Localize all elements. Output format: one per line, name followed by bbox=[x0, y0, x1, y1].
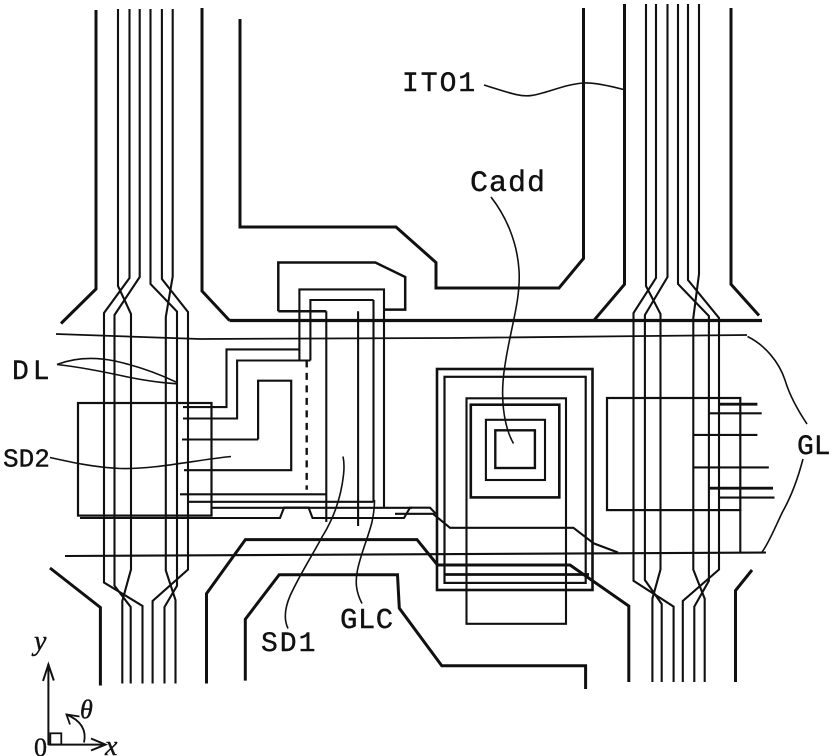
wire: DL leftmost thick line bbox=[61, 10, 96, 324]
svg-text:x: x bbox=[104, 731, 118, 756]
wire: gate pad right edge extension bbox=[739, 510, 741, 553]
wire: right lower thick line bbox=[736, 570, 753, 682]
capacitor Cadd contact square bbox=[495, 430, 535, 468]
wire: DL line 5 bbox=[151, 9, 178, 684]
electrode: right gate pad rectangle bbox=[607, 398, 740, 510]
svg-text:SD1: SD1 bbox=[261, 629, 317, 660]
leader line: DL lower curve bbox=[57, 365, 177, 384]
wire: SD2 staircase 2 bbox=[183, 361, 310, 419]
electrode: hat middle rectangle bbox=[299, 289, 384, 360]
wire: SD2 staircase 1 bbox=[183, 349, 299, 407]
electrode: hat inner rect right vertical SD electrode bbox=[372, 300, 374, 502]
leader line: Cadd bbox=[491, 197, 519, 444]
electrode: hat middle rect right vertical bbox=[383, 310, 385, 508]
boundary: bumpy layer edge to capacitor bbox=[80, 508, 436, 518]
wire: right bundle outer thick line bbox=[731, 8, 759, 316]
capacitor Cadd fourth rectangle bbox=[471, 405, 560, 498]
wire: DL line 3 bbox=[104, 9, 143, 684]
wire: right data line bundle bbox=[594, 4, 759, 682]
boundary: dashed channel line bbox=[306, 360, 308, 489]
svg-text:y: y bbox=[31, 626, 47, 657]
svg-text:SD2: SD2 bbox=[3, 445, 50, 475]
wire: layer edge into capacitor region bbox=[395, 514, 618, 553]
wire: gate line GL upper thick edge bbox=[230, 319, 763, 322]
axis icon bbox=[31, 626, 118, 756]
leader line: DL upper curve bbox=[57, 358, 177, 382]
capacitor Cadd second rectangle bbox=[445, 377, 586, 583]
wire: right bundle line 3 bbox=[634, 4, 674, 682]
wire: right bundle line 6 bbox=[683, 4, 719, 682]
electrode: SD1 source strip right bbox=[357, 311, 359, 526]
leader line: SD1 bbox=[285, 457, 344, 629]
boundary: gate metal mesa C thick bbox=[245, 575, 585, 689]
axis x arrow bbox=[48, 744, 103, 746]
svg-text:0: 0 bbox=[34, 733, 47, 756]
wire: source connect 2 bbox=[189, 501, 374, 503]
wire: right bundle line 7 bbox=[693, 4, 704, 682]
capacitor Cadd fifth rectangle bbox=[486, 420, 545, 480]
leader line: GL lower bbox=[762, 459, 803, 552]
svg-text:Cadd: Cadd bbox=[470, 167, 546, 201]
wire: right bundle line ITO1 boundary (leader target) bbox=[594, 4, 624, 320]
wire: gate line GL lower edge bbox=[56, 334, 747, 339]
boundary: gate metal mesa B thick bbox=[207, 540, 629, 684]
wire: gate line GL second row bbox=[65, 553, 766, 557]
wire: source connect 1 bbox=[180, 493, 326, 495]
wire: DL line 2 bbox=[118, 9, 131, 684]
wire: gate pad stub 4 bbox=[693, 466, 769, 468]
wire: SD2 link middle bbox=[182, 438, 258, 440]
electrode: hat bottom-left edge bbox=[278, 310, 326, 313]
wire: DL line 4 bbox=[115, 9, 140, 684]
wire: gate pad stub 2 bbox=[709, 412, 762, 414]
svg-text:ITO1: ITO1 bbox=[402, 69, 477, 100]
wire: gate pad stub 5 bbox=[709, 487, 773, 490]
wire: gate pad stub 6 bbox=[719, 497, 775, 499]
leader line: SD2 bbox=[50, 457, 231, 469]
wire: left data line bundle DL bbox=[50, 8, 230, 686]
electrode ITO1 pixel outline bbox=[240, 8, 584, 288]
wire: source connect 3 bbox=[212, 507, 413, 509]
svg-text:GLC: GLC bbox=[340, 604, 394, 637]
wire: DL line 6 bbox=[153, 9, 188, 684]
svg-text:θ: θ bbox=[80, 695, 93, 724]
wire: right bundle line 2 bbox=[646, 4, 661, 682]
capacitor Cadd outer rectangle bbox=[437, 369, 593, 590]
wire: right bundle line 4 bbox=[645, 4, 668, 682]
wire: gate line lower edge segment under Cadd bbox=[445, 573, 589, 576]
wire: gate pad stub 1 bbox=[719, 403, 757, 406]
axis y arrow bbox=[47, 664, 49, 745]
electrode: TFT drain hat outline bbox=[278, 263, 405, 312]
wire: DL line 8 thick joining gate line bbox=[202, 8, 230, 321]
axis right-angle box bbox=[50, 733, 61, 744]
svg-text:DL: DL bbox=[12, 357, 54, 388]
wire: lower-left thick branch bbox=[50, 568, 100, 686]
wire: gate pad stub 3 bbox=[693, 434, 757, 436]
leader line: GLC bbox=[356, 500, 374, 604]
electrode: SD2 inner hook shape bbox=[184, 381, 291, 471]
leader line: GL upper bbox=[748, 337, 808, 425]
electrode: hat inner rectangle bbox=[310, 300, 373, 361]
capacitor Cadd tall rectangle ITO2 bbox=[467, 398, 567, 624]
svg-text:GL: GL bbox=[797, 432, 831, 463]
leader line: ITO1 bbox=[484, 83, 624, 96]
wire: DL line 7 bbox=[166, 9, 176, 684]
electrode: SD1 source strip left bbox=[325, 311, 327, 522]
axis theta arc arrow bbox=[67, 715, 85, 743]
wire: right bundle line 5 bbox=[678, 4, 709, 682]
electrode: SD2 pad rectangle bbox=[78, 403, 212, 516]
